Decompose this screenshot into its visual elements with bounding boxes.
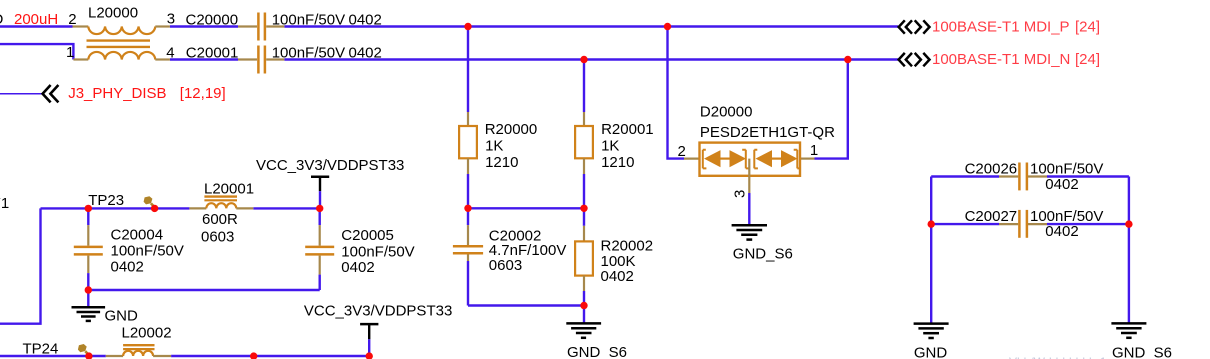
resistor R20000	[459, 112, 537, 174]
wire right rail of C20026/27	[1128, 177, 1130, 324]
capacitor C20004	[74, 208, 184, 290]
inductor L20002	[106, 324, 172, 356]
wire MDI_P top rail	[0, 25, 898, 27]
svg-text:[12,19]: [12,19]	[180, 85, 226, 102]
node C20027 right	[1125, 220, 1132, 227]
capacitor C20002	[453, 208, 566, 305]
test point TP24	[23, 340, 90, 357]
svg-text:0402: 0402	[1045, 223, 1078, 240]
svg-text:1210: 1210	[601, 154, 634, 171]
svg-text:[24]: [24]	[1075, 19, 1100, 36]
svg-text:1210: 1210	[485, 154, 518, 171]
svg-text:600R: 600R	[202, 211, 238, 228]
svg-text:Vbb/Wd-bl-ld-bb-1: Vbb/Wd-bl-ld-bb-1	[1009, 355, 1107, 359]
svg-text:1K: 1K	[485, 137, 503, 154]
svg-text:100nF/50V: 100nF/50V	[272, 12, 345, 29]
svg-text:R20000: R20000	[485, 121, 538, 138]
diode pair 1	[703, 150, 707, 169]
test point TP23	[88, 192, 155, 209]
svg-text:0402: 0402	[111, 259, 144, 276]
wire left L-shape	[0, 208, 41, 323]
node TP24	[85, 352, 92, 359]
power VCC_3V3/VDDPST33 top	[256, 157, 404, 208]
svg-text:0402: 0402	[349, 12, 382, 29]
wire branch to D20000 pin 2	[668, 27, 685, 159]
svg-text:J3_PHY_DISB: J3_PHY_DISB	[68, 85, 166, 102]
ground GND at C20004	[72, 290, 139, 324]
resistor R20001	[575, 112, 654, 174]
node VCC/C20005	[316, 205, 323, 212]
svg-text:L20001: L20001	[204, 181, 254, 198]
svg-text:0603: 0603	[201, 229, 234, 246]
capacitor C20027	[931, 208, 1129, 240]
capacitor C20005	[305, 208, 414, 290]
svg-text:TP23: TP23	[88, 192, 124, 209]
svg-text:L20002: L20002	[122, 324, 172, 341]
svg-text:100nF/50V: 100nF/50V	[272, 44, 345, 61]
capacitor C20001	[186, 44, 382, 73]
svg-text:100BASE-T1 MDI_P: 100BASE-T1 MDI_P	[932, 19, 1070, 36]
svg-text:GND_S6: GND_S6	[733, 245, 793, 262]
node wireN/D20000	[844, 56, 851, 63]
svg-text:PESD2ETH1GT-QR: PESD2ETH1GT-QR	[700, 124, 835, 141]
node bottom VCC	[366, 352, 373, 359]
svg-text:3: 3	[167, 11, 175, 28]
diode pair 2	[754, 150, 758, 169]
ground GND left rail	[914, 324, 949, 359]
svg-text:C20026: C20026	[965, 161, 1018, 178]
node TP23	[151, 205, 158, 212]
port J3_PHY_DISB	[0, 85, 226, 102]
svg-text:D20000: D20000	[700, 104, 753, 121]
svg-text:0402: 0402	[1045, 176, 1078, 193]
wire bottom bus C20002/R20002	[468, 304, 584, 306]
svg-text:GND_S6: GND_S6	[1112, 345, 1172, 359]
svg-text:GND_S6: GND_S6	[567, 344, 627, 359]
svg-text:2: 2	[68, 11, 76, 28]
node R20002 top	[580, 205, 587, 212]
resistor R20002	[575, 208, 653, 305]
svg-text:VCC_3V3/VDDPST33: VCC_3V3/VDDPST33	[256, 157, 404, 174]
wire MDI_N bottom rail	[0, 44, 898, 59]
svg-text:C20004: C20004	[111, 227, 164, 244]
node TP23 row / C20004	[85, 205, 92, 212]
svg-text:Y1: Y1	[0, 195, 9, 212]
inductor L20000 (common-mode choke)	[66, 5, 175, 62]
wire branch to R20001	[583, 60, 585, 113]
svg-text:1: 1	[66, 44, 74, 61]
port 100BASE-T1 MDI_N	[899, 51, 1100, 68]
inductor L20001	[189, 181, 254, 246]
node bottom row mid	[250, 352, 257, 359]
svg-text:0603: 0603	[489, 257, 522, 274]
svg-text:0402: 0402	[349, 44, 382, 61]
svg-text:R20002: R20002	[601, 238, 654, 255]
svg-text:100BASE-T1 MDI_N: 100BASE-T1 MDI_N	[932, 51, 1070, 68]
node R20002 bottom	[580, 302, 587, 309]
wire branch to D20000 pin 1	[815, 60, 848, 159]
wire mid bus	[468, 207, 584, 209]
svg-text:D: D	[0, 11, 4, 28]
svg-text:3: 3	[732, 190, 749, 198]
node wireP/D20000	[664, 23, 671, 30]
node C20027 left	[928, 220, 935, 227]
svg-text:0402: 0402	[341, 259, 374, 276]
svg-text:C20000: C20000	[186, 12, 239, 29]
svg-text:VCC_3V3/VDDPST33: VCC_3V3/VDDPST33	[304, 303, 452, 320]
node C20004 bottom	[85, 286, 92, 293]
svg-text:R20001: R20001	[601, 121, 654, 138]
capacitor C20000	[186, 12, 382, 41]
wire TP23 row	[41, 207, 190, 209]
pin 3 stem	[748, 159, 750, 193]
svg-text:GND: GND	[914, 345, 948, 359]
port 100BASE-T1 MDI_P	[899, 19, 1100, 36]
svg-text:0402: 0402	[601, 268, 634, 285]
wire R20000 to mid bus	[467, 174, 469, 208]
svg-text:1K: 1K	[601, 137, 619, 154]
svg-text:C20005: C20005	[341, 227, 394, 244]
wire left rail of C20026/27	[930, 177, 932, 324]
svg-text:200uH: 200uH	[14, 11, 58, 28]
svg-text:C20001: C20001	[186, 44, 239, 61]
ground GND_S6 at D20000 pin 3	[732, 193, 793, 262]
node wireP/R20000	[464, 23, 471, 30]
TVS diode D20000 PESD2ETH1GT-QR	[678, 104, 836, 199]
svg-text:GND: GND	[105, 307, 139, 324]
wire branch to R20000	[467, 27, 469, 113]
svg-text:100nF/50V: 100nF/50V	[341, 243, 414, 260]
ground GND_S6 right rail	[1111, 323, 1172, 359]
svg-text:L20000: L20000	[88, 5, 138, 22]
wire bottom row	[0, 355, 106, 357]
svg-text:4: 4	[166, 45, 174, 62]
node C20002 top	[464, 205, 471, 212]
power VCC_3V3/VDDPST33 bottom	[304, 303, 452, 357]
svg-text:[24]: [24]	[1075, 51, 1100, 68]
svg-text:100nF/50V: 100nF/50V	[111, 243, 184, 260]
svg-text:1: 1	[810, 142, 818, 159]
node wireN/R20001	[580, 56, 587, 63]
ground GND_S6 at R20002	[566, 306, 627, 359]
capacitor C20026	[931, 161, 1129, 193]
svg-text:2: 2	[678, 143, 686, 160]
wire R20001 to mid bus	[583, 174, 585, 208]
svg-text:C20027: C20027	[965, 208, 1018, 225]
wire bottom bus C20004-C20005	[88, 289, 319, 291]
